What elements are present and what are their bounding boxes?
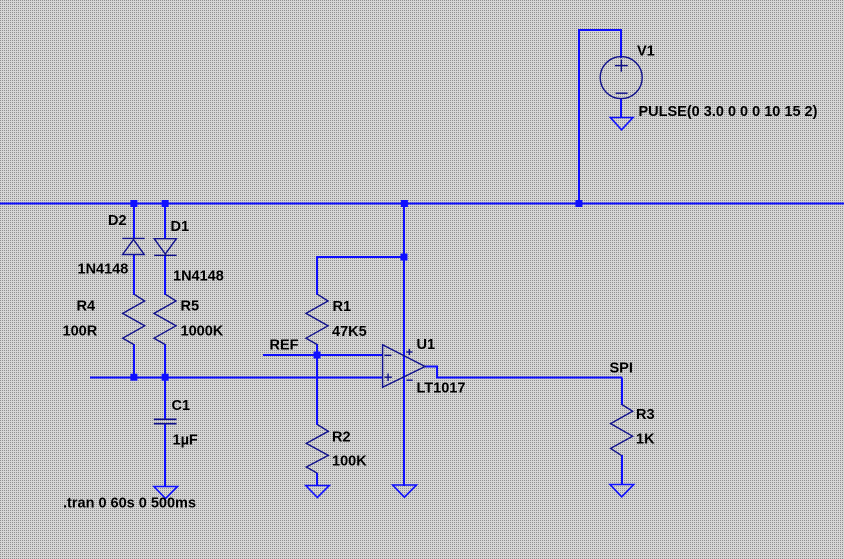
wire C1 bottom lead [164, 424, 166, 487]
wire V1 riser horizontal [578, 29, 621, 31]
wire R4 bottom lead [133, 344, 135, 378]
junction D1 on top rail [162, 200, 169, 207]
junction R4 bottom [130, 374, 137, 381]
wire C1 top lead [164, 378, 166, 419]
svg-text:V1: V1 [637, 44, 655, 60]
wire bottom horizontal to op-amp plus input [90, 377, 383, 379]
svg-text:R2: R2 [332, 430, 351, 446]
resistor R2 [306, 425, 328, 474]
svg-text:1K: 1K [636, 432, 655, 448]
svg-text:.tran 0 60s 0 500ms: .tran 0 60s 0 500ms [63, 496, 196, 512]
ground below power rail [393, 485, 417, 497]
wire R1 top vertical [316, 256, 318, 295]
voltage source V1 [600, 57, 642, 99]
wire REF horizontal to op-amp minus input [263, 354, 383, 356]
wire SPI to R3 [621, 378, 623, 406]
resistor R3 [611, 404, 633, 455]
svg-text:REF: REF [270, 338, 299, 354]
svg-text:R1: R1 [333, 299, 352, 315]
svg-text:1000K: 1000K [181, 324, 224, 340]
wire power rail vertical [403, 203, 405, 486]
ground below R2 [306, 486, 330, 498]
svg-text:47K5: 47K5 [332, 324, 367, 340]
wire R1 top horizontal [317, 256, 404, 258]
ground below V1 [610, 118, 633, 130]
wire R5 bottom lead [164, 344, 166, 378]
wire REF to R2 [316, 355, 318, 425]
wire main top rail [0, 202, 844, 204]
wire R2 bottom lead [316, 473, 318, 486]
op-amp U1 [383, 345, 426, 388]
svg-text:PULSE(0 3.0 0 0 0 10 15 2): PULSE(0 3.0 0 0 0 10 15 2) [639, 104, 818, 120]
diode D2 [122, 238, 144, 254]
svg-text:SPI: SPI [610, 361, 633, 377]
wire V1 riser vertical [578, 30, 580, 203]
svg-text:1N4148: 1N4148 [78, 262, 129, 278]
junction R1 top on power rail [401, 254, 408, 261]
svg-text:LT1017: LT1017 [417, 381, 466, 397]
junction V1 riser on top rail [575, 200, 582, 207]
resistor R1 [306, 294, 328, 344]
svg-text:R3: R3 [636, 407, 655, 423]
wire D1 to R5 [164, 255, 166, 295]
svg-text:100R: 100R [63, 324, 98, 340]
svg-text:1N4148: 1N4148 [173, 269, 224, 285]
svg-text:100K: 100K [332, 454, 367, 470]
wire D2 to R4 [133, 254, 135, 295]
svg-text:D2: D2 [108, 213, 127, 229]
wire D2 top lead [133, 203, 135, 239]
junction D2 on top rail [130, 200, 137, 207]
junction power rail on top rail [401, 200, 408, 207]
svg-text:U1: U1 [417, 337, 436, 353]
wire D1 top lead [164, 203, 166, 239]
svg-text:C1: C1 [172, 398, 191, 414]
junction R5 bottom [162, 374, 169, 381]
wire V1 top lead [620, 29, 622, 58]
wire op-amp output jog [425, 367, 622, 378]
resistor R5 [154, 294, 176, 344]
wire R3 bottom lead [621, 455, 623, 485]
svg-text:R4: R4 [77, 299, 96, 315]
wire V1 bottom lead [620, 98, 622, 118]
diode D1 [154, 239, 176, 256]
ground below R3 [610, 485, 634, 497]
svg-text:D1: D1 [171, 219, 190, 235]
junction node REF [314, 352, 321, 359]
capacitor C1 [154, 419, 177, 423]
resistor R4 [123, 294, 145, 344]
svg-text:1µF: 1µF [173, 433, 198, 449]
wire R1 bottom lead [316, 344, 318, 356]
ground below C1 [154, 487, 178, 499]
svg-text:R5: R5 [181, 299, 200, 315]
